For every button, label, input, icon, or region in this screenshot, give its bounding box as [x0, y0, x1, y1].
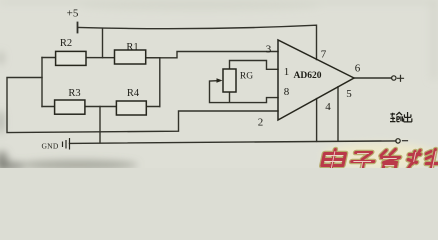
- svg-text:RG: RG: [240, 72, 253, 82]
- svg-text:6: 6: [355, 63, 361, 75]
- svg-text:R3: R3: [68, 88, 80, 99]
- svg-text:AD620: AD620: [294, 71, 322, 81]
- svg-text:7: 7: [321, 49, 327, 61]
- svg-text:+5: +5: [67, 8, 79, 20]
- svg-text:R4: R4: [127, 88, 140, 99]
- svg-text:3: 3: [266, 44, 272, 56]
- svg-text:1: 1: [284, 66, 290, 78]
- svg-text:GND: GND: [41, 141, 58, 150]
- svg-text:R1: R1: [126, 42, 138, 53]
- svg-text:2: 2: [258, 117, 264, 129]
- svg-text:8: 8: [284, 86, 290, 98]
- svg-text:R2: R2: [60, 38, 72, 49]
- svg-text:4: 4: [325, 101, 331, 113]
- svg-text:5: 5: [346, 88, 352, 100]
